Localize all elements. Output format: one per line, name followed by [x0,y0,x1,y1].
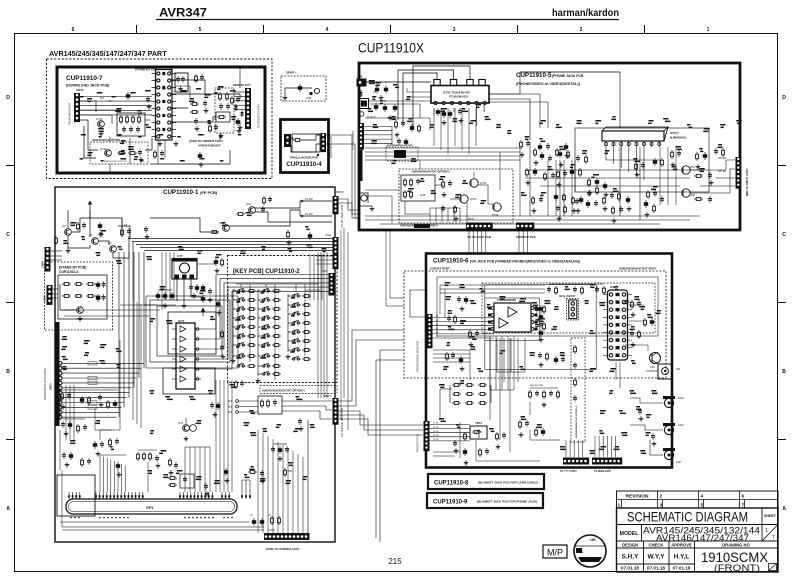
main horizontal bus FP [128,238,333,240]
block5 mid cluster extra1 [534,148,537,157]
FP right vertical bundle [309,254,311,300]
svg-text:Q3: Q3 [62,224,66,228]
connector BB50 left edge [358,123,364,150]
transistor Q754 [493,203,501,211]
svg-text:PL-RD: PL-RD [433,427,439,429]
M/P marking box [543,545,567,558]
caps row top block6 [547,286,551,293]
block5 mid cluster extra2 [572,196,575,205]
revision table [617,491,779,508]
block5 to block6 left wires [390,230,404,298]
block A smudges2 [79,96,84,98]
model row [617,540,779,542]
RCA jack J304 [664,425,673,434]
svg-text:WH-RD: WH-RD [718,157,727,160]
transistor Q61 [650,353,661,364]
option dashed box AVR246/346 [399,169,513,223]
sheet number cell [762,525,778,542]
svg-text:Q11: Q11 [246,202,251,206]
svg-text:J750: J750 [357,76,363,79]
CN72 wires and labels [62,362,144,364]
svg-text:TO PHONE JACK PCB: TO PHONE JACK PCB [340,408,344,437]
board label CUP11910-9 [427,493,543,508]
stand-by transistor [77,307,84,314]
svg-text:B-5: B-5 [100,96,105,100]
wires from CN47 [80,96,152,98]
ground symbols block A [158,141,163,146]
wire loop around IC72 [157,306,222,356]
ground Q area [66,248,71,253]
svg-text:APPROVE: APPROVE [671,542,692,547]
svg-text:J751: J751 [306,96,312,100]
svg-text:DRAWING NO: DRAWING NO [722,542,750,547]
svg-text:CN48: CN48 [43,295,47,302]
svg-text:J40?: J40? [676,460,682,464]
svg-text:(VR JACK PCB (VR/HEAD PHON: (VR JACK PCB (VR/HEAD PHONES(MIC)/VIDEO-… [470,260,580,264]
svg-text:6: 6 [72,27,75,33]
svg-text:IC5(?): IC5(?) [670,131,679,135]
wires from FP connector [430,424,471,426]
block6 bottom-left wires [433,451,460,453]
key matrix extra bottom switches [236,364,245,368]
svg-text:1: 1 [707,27,710,33]
svg-text:A: A [782,506,786,512]
svg-text:W.Y,Y: W.Y,Y [647,554,665,561]
diode D750 [359,90,363,97]
svg-text:CUP11910-9: CUP11910-9 [433,500,468,506]
sub-box around FIP left [57,475,95,516]
svg-text:[KEY PCB] CUP11910-2: [KEY PCB] CUP11910-2 [233,269,300,275]
wires to phone jack connector [282,400,332,402]
connector right edge bus BB1 [333,237,339,255]
svg-text:Only AV347: Only AV347 [559,294,576,298]
svg-text:BB70: BB70 [468,218,475,221]
jack box J751 [360,99,369,109]
vertical option dashed column [571,338,585,442]
svg-text:PL-RD: PL-RD [305,212,313,216]
option dashed box AVR245/345 [90,142,148,164]
emitter resistors Q51/Q52 [694,175,703,178]
rescap column in option [574,345,577,354]
block6 extra cluster [446,352,449,361]
svg-text:Q75: Q75 [178,421,183,425]
svg-text:J204: J204 [678,396,684,400]
caps cluster bottom-left 1 [61,421,65,428]
wires from left connector block6 [433,317,495,319]
mid rescap cluster 4 [532,196,535,205]
block5 left cluster2 [395,120,398,129]
transistor Q51 [682,166,690,174]
block6 left wire bundle [433,349,470,351]
cap C85 [204,483,208,490]
svg-text:D: D [6,95,10,101]
svg-text:FROM FP PCB: FROM FP PCB [416,434,420,452]
resistor R5 [121,228,124,237]
caps cluster above power connector [252,518,256,526]
block5 extra wires [365,147,520,149]
box around IC72 lower [168,312,216,354]
svg-text:TO INPUT ASSY: TO INPUT ASSY [351,130,355,150]
svg-text:MODEL: MODEL [620,531,640,537]
caps under IC751 [436,108,440,116]
svg-text:CUP11910-8: CUP11910-8 [434,481,469,487]
header rule line [156,19,619,21]
block5 bottom verticals [429,208,431,222]
headphone jack J61 [658,364,672,379]
long drops IC751 [475,105,477,126]
block6 loop rect [437,277,658,336]
caps near Q75 [210,402,214,409]
speaker terminal SP401 [284,134,291,147]
vertical feeders block5 [529,141,531,216]
FP extra long verticals [165,252,167,300]
svg-text:CUP11910-6: CUP11910-6 [433,258,469,265]
wires option box to bottom [405,201,430,214]
svg-text:PL-RD: PL-RD [433,423,439,425]
wires mid-bottom block6 [459,422,461,458]
board outline CUP11910-5 (phone jack PCB) [359,63,740,230]
long vertical wires to power connector [257,430,259,533]
svg-text:IL77: IL77 [177,254,183,258]
dashed region block6 outer [404,271,666,378]
board outline CUP11910-1 (FP PCB) [55,187,335,542]
svg-text:DESIGN: DESIGN [622,542,638,547]
block6 bottom wires [530,439,560,441]
svg-text:Q1: Q1 [89,233,93,237]
svg-text:CN71: CN71 [268,528,275,532]
board outline CUP11910-6 (VR jack PCB) [426,254,672,468]
svg-text:PL-RD: PL-RD [433,435,439,437]
FIP1 vacuum fluorescent display [66,499,237,514]
wires from BB50 [364,126,393,128]
caps right of NJM [671,150,674,159]
long bus wires block5 bottom [365,215,700,217]
svg-text:CUP11910-5: CUP11910-5 [516,72,552,79]
svg-text:NJM4556AL: NJM4556AL [670,136,687,140]
title block outline [617,508,779,572]
IC61 dual op-amp [494,303,531,332]
sub box resistors [401,175,435,201]
svg-text:AVR347/345/347: AVR347/345/347 [198,144,221,148]
schematic diagram banner [617,524,779,526]
key matrix feed wires [240,284,242,287]
svg-text:B: B [782,369,786,375]
bottom connectors block6 [563,458,589,465]
svg-text:PL-RD: PL-RD [433,439,439,441]
svg-text:CUP11910-7: CUP11910-7 [66,75,103,82]
cluster mid-bottom block6 [464,432,467,441]
FP caps column below CN72 [65,385,67,440]
big wire loop block5 [575,128,709,192]
transistor Q12 [223,225,230,232]
FIP pins group right [179,492,181,499]
wires IC62 region [629,304,644,306]
svg-text:TO MAIN ASSY: TO MAIN ASSY [594,470,612,473]
svg-text:PL-RD: PL-RD [305,197,313,201]
cluster below inner dashed [529,390,532,399]
svg-text:C: C [6,232,10,238]
svg-text:AVR246/346/247/347 OPTION-4: AVR246/346/247/347 OPTION-4 [575,405,578,438]
svg-text:07.01.18: 07.01.18 [647,566,665,571]
wires Q11/Q12 to right edge connector [255,201,332,208]
connector TO VR JACK PCB bottom [466,223,493,230]
wires inter-block FP to block5 [339,199,360,210]
FP extra parts right of IC72 [221,330,224,339]
svg-text:07.01.18: 07.01.18 [673,566,691,571]
svg-text:Q61: Q61 [650,365,655,369]
key matrix column 1 [236,289,245,293]
svg-text:FROM INPUT ASSY(MAIN): FROM INPUT ASSY(MAIN) [43,368,47,400]
wires to right connector [234,91,245,93]
svg-text:(S/W) TO HIDDEN ASSY: (S/W) TO HIDDEN ASSY [189,139,223,143]
svg-text:CN46: CN46 [41,261,45,268]
svg-text:TO REMOTE(?) ASSY: TO REMOTE(?) ASSY [258,104,261,128]
jack caps [638,408,642,415]
transistor Q741 [98,121,105,128]
caps cluster bottom-left 2 [93,441,97,449]
caps right of IL77 [201,284,205,292]
block5 mid cluster extra3 [612,206,615,215]
FP labels texture [70,222,76,224]
fuse F751 [285,88,312,95]
svg-text:. UE: . UE [588,537,596,542]
svg-text:4: 4 [326,27,329,33]
FIP pins group left [68,492,70,499]
svg-text:2: 2 [580,27,583,33]
FP mid horizontal wires [64,309,160,311]
svg-text:5: 5 [199,27,202,33]
svg-text:H.Y,L: H.Y,L [674,554,690,561]
svg-text:AVR245/345/347 OPTION: AVR245/345/347 OPTION [92,139,120,142]
resistor stack right of IL77 [214,258,218,266]
resistor R747 / caps mid [190,103,199,106]
svg-text:AVR145/245/345 OPTION: AVR145/245/345 OPTION [387,144,413,147]
bias wires [67,210,69,228]
svg-text:07.01.18: 07.01.18 [621,566,639,571]
svg-text:AVR145/245/345/147/247/347 PA: AVR145/245/345/147/247/347 PART [49,49,167,58]
svg-text:M/P: M/P [547,548,563,558]
mid rescap cluster 2 [526,168,529,177]
bus vertical bends left [118,226,130,239]
cap C79 [298,418,302,425]
FP wires left-bottom [60,389,118,391]
key matrix labels texture [236,292,240,294]
wires CUP11910-4 [291,138,293,140]
speaker J751 [314,88,319,93]
block A extra wires [80,101,96,112]
bus stubs to right edge [316,255,333,257]
wires to jacks [646,370,658,372]
svg-text:B: B [6,369,10,375]
connector BB2 right edge [736,157,742,189]
svg-text:Q752: Q752 [480,181,487,185]
block A right cluster [236,118,240,126]
transistor Q753 [460,195,468,203]
inter-block verticals right of FP [343,228,345,398]
svg-text:2: 2 [660,494,663,500]
svg-text:Q754: Q754 [492,213,499,217]
vertical wire bundle center-left [118,252,120,417]
svg-text:C: C [782,232,786,238]
svg-text:CUP11910-4: CUP11910-4 [286,161,322,168]
top border ticks [136,25,138,33]
block5 smudges2 [392,116,396,118]
svg-text:← SPKR +: ← SPKR + [282,71,297,75]
svg-text:SPK(L)/JACK(R) PCB: SPK(L)/JACK(R) PCB [290,156,318,160]
FP wire along bottom [60,521,250,523]
svg-text:(BLANKET JACK PCB FOR CARD CAB: (BLANKET JACK PCB FOR CARD CABLE) [478,481,538,485]
svg-text:Q52: Q52 [690,193,695,197]
svg-text:(DOWNLOAD JACK PCB): (DOWNLOAD JACK PCB) [66,84,110,88]
svg-text:R91: R91 [288,470,293,473]
svg-text:AVR347 PART: AVR347 PART [430,267,450,271]
key matrix column 2 [261,289,270,293]
block A extra parts [146,96,150,103]
block5 top-right wires [520,71,620,73]
svg-text:SCHEMATIC DIAGRAM: SCHEMATIC DIAGRAM [627,509,748,525]
block5 mid dense cluster [557,170,560,179]
svg-text:Q51: Q51 [690,165,695,169]
FIP feed wire bundle [99,455,101,492]
svg-text:(FRONT): (FRONT) [714,563,760,573]
svg-text:4: 4 [701,494,704,500]
svg-text:FIP1: FIP1 [146,506,153,510]
svg-text:CUP11910X: CUP11910X [358,40,425,56]
svg-text:FROM MAIN ASSY: FROM MAIN ASSY [68,102,72,125]
caps near VR51 [453,440,457,447]
wires CUP11910-4 to block5 [326,135,359,214]
svg-text:REMOTE OUT: REMOTE OUT [233,83,251,87]
block5 labels texture [369,80,375,82]
svg-text:J60: J60 [676,367,681,371]
transistor Q52 [682,189,690,197]
power connector CN71 [264,533,310,540]
loop rects around IC61 [485,298,540,340]
grid drive wires right of FIP [241,480,243,492]
caps cluster bottom-left 3 [137,452,140,461]
svg-text:PL-RD: PL-RD [433,431,439,433]
caps cluster mid-left [156,292,160,300]
transistor Q2 [92,238,99,245]
connector key pcb right edge [329,273,335,296]
FP cluster y455 [62,452,66,459]
UL listed logo [574,535,606,567]
svg-text:R64 R65 R66: R64 R65 R66 [530,385,544,387]
stand-by PCB dashed box CUP11910-3 [45,262,113,330]
svg-text:(PHONE JACK PCB: (PHONE JACK PCB [552,74,584,78]
sign header row [617,547,779,549]
connector right edge top TO VR JACK PCB [333,196,339,214]
capacitor block top right [175,73,188,92]
resistors right of IC62 [631,300,634,309]
svg-text:CN47: CN47 [76,88,84,92]
wires to bottom connectors [565,440,567,457]
caps row1 J750 [375,86,379,94]
block5 vertical drops extra [547,160,549,216]
mid rescap cluster 3 [558,150,562,158]
jack circuit CUP11910-4 [292,134,320,152]
block6 IC pin drops [496,338,498,372]
svg-text:A: A [6,506,10,512]
svg-text:FROM MAIN ASSY: FROM MAIN ASSY [329,135,333,158]
svg-text:AVR246/346/347/347 OPTION-2: AVR246/346/347/347 OPTION-2 [412,170,450,174]
caps cluster right2 [248,471,257,474]
wires matrix to bus [310,283,318,285]
svg-text:Q753: Q753 [470,197,477,201]
left border ticks [6,165,14,167]
transistor Q3 [110,246,117,253]
wires NJM pins down [605,147,607,160]
wires inter-block FP to block6 [339,330,405,401]
IC NJM4556AL [602,131,664,141]
caps cluster right1 [271,446,275,453]
svg-text:(TC9163N-012): (TC9163N-012) [449,95,468,99]
svg-text:AVR246/346/247/347 PART: AVR246/346/247/347 PART [619,267,657,271]
svg-text:CN4: CN4 [322,270,327,273]
stand-by resistors [62,283,71,286]
resistor pair R81 [168,477,177,480]
block6 labels texture [445,282,451,284]
projection symbol [769,564,777,571]
FP smudges2 [63,240,67,242]
svg-text:STAND-BY CN?: STAND-BY CN? [135,68,157,72]
FP bottom bus wires [62,526,264,528]
svg-text:(S/W) TO POWER ASSY: (S/W) TO POWER ASSY [266,547,300,551]
svg-text:Q2: Q2 [108,241,112,245]
FP nested loops around IC72 [150,300,230,362]
resistor grid bottom-left block6 [452,384,461,387]
wires IC751 nested loop [403,73,437,124]
sign row [617,563,695,565]
svg-text:BB4(?): BB4(?) [336,190,344,194]
svg-text:harman/kardon: harman/kardon [552,8,619,19]
power arrow VCC [89,204,91,210]
mid rescap cluster 1 [520,140,523,149]
svg-text:CHECK: CHECK [649,542,664,547]
ground key matrix [231,358,236,363]
svg-text:S.H,Y: S.H,Y [622,554,639,561]
board label CUP11910-8 [428,474,544,489]
jumper block below key pcb [258,396,282,414]
FIP pin dots below [70,517,72,519]
svg-text:6: 6 [742,494,745,500]
stand-by inner board outline [58,275,107,319]
svg-text:3: 3 [453,27,456,33]
svg-text:1: 1 [765,528,768,534]
key bus top [258,274,329,276]
svg-text:AVR347: AVR347 [159,6,207,20]
block5 corner option bar [414,224,430,228]
svg-text:REMO(?)/247 OPTION: REMO(?)/247 OPTION [104,161,127,163]
block6 mid caps row [538,352,542,359]
board outline CUP11910-7 (download jack PCB) [57,67,265,173]
block5 top wire loop [433,108,435,114]
connector CN401 [321,133,327,152]
option box components [442,180,445,189]
wires FP bottom routing [59,430,61,470]
bottom bus wires block A [84,126,96,158]
board outline CUP11910-4 (speaker jack PCB) [281,120,329,173]
key matrix column 3 [291,294,300,298]
svg-text:FROM FP PCB: FROM FP PCB [516,235,535,239]
RCA jack J204 [664,398,673,407]
caps cluster mid2 [189,284,193,291]
svg-text:7: 7 [772,535,775,541]
caps around IC U6A [457,296,461,303]
RCA jack J404 [664,450,673,459]
option dashed box small [386,147,418,161]
transistor Q75 [183,425,190,432]
